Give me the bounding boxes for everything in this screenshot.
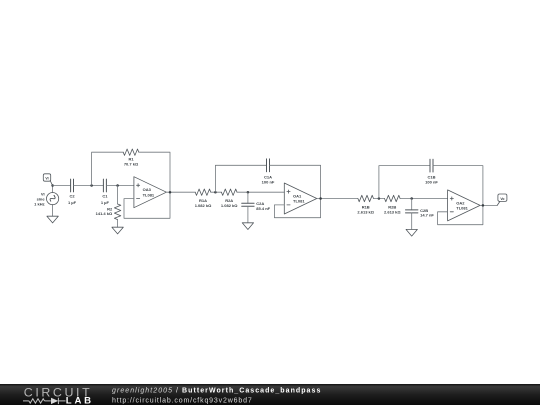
value label R2 / 141.4 kOhm (96, 206, 113, 216)
wire C1A to output node (270, 165, 321, 198)
value label R1B / 2.613 kOhm (357, 205, 374, 215)
svg-text:Vo: Vo (500, 197, 504, 201)
capacitor C1 (103, 179, 106, 192)
svg-text:LAB: LAB (66, 396, 94, 405)
resistor R1A (195, 189, 211, 195)
op-amp2 output wire (317, 198, 358, 200)
ground (source) (47, 216, 58, 223)
svg-text:TL081: TL081 (293, 199, 305, 204)
wire down to R2 (117, 186, 119, 205)
ground (C2A) (242, 223, 253, 230)
wire R2 to ground (117, 220, 119, 228)
svg-text:C1: C1 (102, 194, 108, 199)
op-amp OA2 TL081 (448, 190, 481, 221)
svg-text:1.082 kΩ: 1.082 kΩ (195, 203, 212, 208)
op-amp1 output wire (166, 191, 195, 193)
value label C2B / 14.7 nF (420, 208, 434, 218)
svg-text:TL081: TL081 (456, 206, 468, 211)
value label V1: VI / sine / 1 kHz (34, 192, 45, 207)
resistor R2 (114, 204, 120, 220)
capacitor C1A (267, 159, 270, 172)
value label C1 / 1 uF (101, 194, 110, 205)
value label C1A / 100 nF (262, 174, 275, 184)
op-amp3 output wire (480, 204, 497, 206)
wire C2B to ground (411, 213, 413, 230)
wire C1 to op-amp + input (106, 185, 133, 187)
resistor R1 (123, 149, 139, 155)
junction C1B tap (378, 197, 381, 200)
junction C2A tap (247, 191, 250, 194)
svg-text:14.7 nF: 14.7 nF (420, 213, 434, 218)
value label C2A / 85.4 nF (256, 201, 270, 211)
capacitor C2A (242, 203, 254, 206)
wire R1A to R2A (211, 191, 222, 193)
junction op-amp2 output (319, 197, 322, 200)
svg-text:TL081: TL081 (143, 192, 155, 197)
value label R1 / 70.7 kOhm (124, 157, 139, 167)
value label C1B / 100 nF (425, 175, 438, 185)
wire C1B feedback left/up (379, 166, 430, 199)
resistor R1B (358, 195, 374, 201)
ground (C2B) (406, 229, 417, 236)
node Vo flag (497, 194, 507, 205)
svg-text:70.7 kΩ: 70.7 kΩ (124, 162, 139, 167)
node A junction (C2/C1/R1 feedback) (90, 184, 93, 187)
svg-text:2.613 kΩ: 2.613 kΩ (357, 209, 374, 214)
junction C2B tap (410, 197, 413, 200)
junction C1A tap (214, 191, 217, 194)
junction op-amp3 output (482, 204, 485, 207)
svg-text:VI: VI (45, 177, 48, 181)
svg-text:http://circuitlab.com/cfkq93v2: http://circuitlab.com/cfkq93v2w6bd7 (112, 397, 253, 404)
junction at R2 tap (116, 184, 119, 187)
capacitor C2B (406, 210, 418, 213)
wire C1A feedback left/up (215, 165, 266, 192)
logo schematic line: wire, resistor, diode (23, 398, 66, 404)
wire R1B to R2B (374, 198, 385, 200)
capacitor C2 (71, 179, 74, 192)
svg-text:C2: C2 (69, 194, 75, 199)
wire R1 to output node (139, 152, 170, 192)
voltage source V1 (VI sine 1 kHz) (47, 186, 59, 217)
wire op-amp3 negative feedback loop (438, 205, 483, 224)
value label R2B / 2.613 kOhm (384, 205, 401, 215)
wire op-amp2 negative feedback loop (274, 199, 320, 218)
wire C1B to output node (433, 166, 483, 206)
wire source to C2 (53, 185, 71, 187)
logo diode triangle (51, 398, 58, 404)
op-amp OA3 TL081 (134, 177, 167, 208)
junction op-amp1 output (169, 191, 172, 194)
svg-text:1.082 kΩ: 1.082 kΩ (221, 203, 238, 208)
resistor R2B (385, 195, 401, 201)
resistor R2A (221, 189, 237, 195)
wire C2 to node A (74, 185, 104, 187)
ground (R2) (112, 227, 123, 234)
wire feedback up from node A (92, 152, 124, 185)
wire C2A to ground (247, 206, 249, 223)
wire down to C2A (247, 192, 249, 203)
svg-text:85.4 nF: 85.4 nF (256, 206, 270, 211)
value label R2A / 1.082 kOhm (221, 198, 238, 208)
value label R1A / 1.082 kOhm (195, 198, 212, 208)
node VI flag (43, 174, 52, 186)
svg-text:1 kHz: 1 kHz (34, 201, 44, 206)
wire op-amp1 negative feedback loop (124, 192, 170, 218)
junction at source output (51, 184, 54, 187)
svg-text:greenlight2005 / ButterWorth_C: greenlight2005 / ButterWorth_Cascade_ban… (112, 388, 321, 395)
svg-text:100 nF: 100 nF (425, 180, 438, 185)
wire R2B to op-amp3 (400, 198, 448, 200)
wire down to C2B (411, 199, 413, 210)
op-amp OA1 TL081 (284, 183, 317, 214)
capacitor C1B (430, 159, 433, 172)
wire R2A to op-amp2 (237, 191, 284, 193)
svg-text:1 µF: 1 µF (101, 200, 110, 205)
svg-text:100 nF: 100 nF (262, 179, 275, 184)
svg-text:1 µF: 1 µF (68, 200, 77, 205)
svg-text:2.613 kΩ: 2.613 kΩ (384, 209, 401, 214)
svg-text:141.4 kΩ: 141.4 kΩ (96, 211, 113, 216)
value label C2 / 1 uF (68, 194, 77, 205)
